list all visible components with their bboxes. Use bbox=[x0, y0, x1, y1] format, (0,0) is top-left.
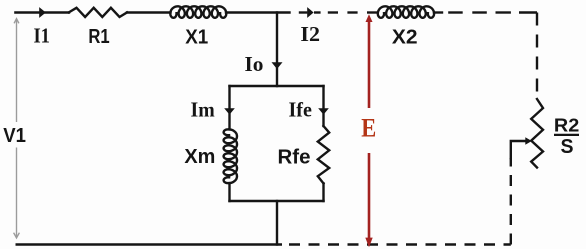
svg-text:X1: X1 bbox=[185, 25, 208, 48]
svg-text:R2: R2 bbox=[554, 115, 579, 136]
svg-text:E: E bbox=[361, 113, 376, 143]
svg-text:R1: R1 bbox=[88, 25, 109, 48]
svg-text:V1: V1 bbox=[3, 125, 26, 147]
svg-text:Im: Im bbox=[191, 98, 216, 122]
svg-text:I2: I2 bbox=[300, 22, 320, 46]
svg-text:X2: X2 bbox=[392, 26, 418, 49]
svg-text:Xm: Xm bbox=[184, 145, 215, 168]
svg-text:I1: I1 bbox=[33, 24, 50, 48]
svg-text:Rfe: Rfe bbox=[278, 145, 311, 168]
svg-text:Io: Io bbox=[245, 52, 264, 76]
svg-text:S: S bbox=[561, 136, 574, 158]
svg-text:Ife: Ife bbox=[289, 98, 312, 122]
